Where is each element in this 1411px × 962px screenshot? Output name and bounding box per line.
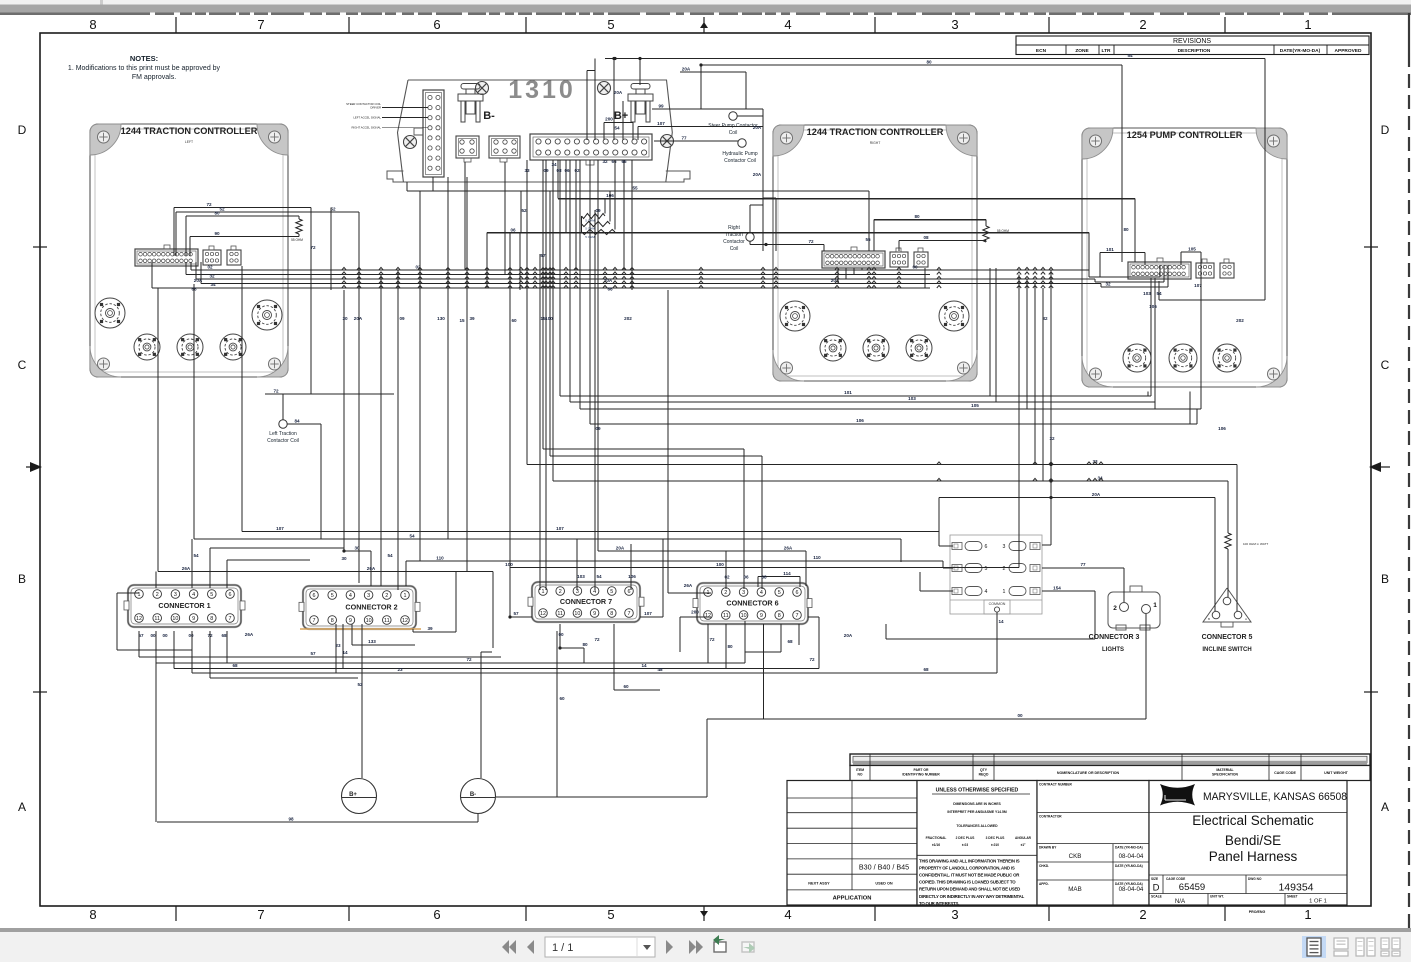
- svg-text:Contactor Coil: Contactor Coil: [724, 158, 756, 164]
- wire 80 top: [699, 60, 1129, 263]
- wire 08 right box: [899, 235, 986, 251]
- svg-text:103: 103: [908, 396, 916, 401]
- svg-text:52: 52: [521, 208, 527, 213]
- svg-text:A: A: [1245, 617, 1247, 621]
- svg-text:NO: NO: [857, 773, 862, 777]
- wire conn1 top drops: [156, 539, 344, 588]
- svg-text:6: 6: [433, 907, 440, 922]
- connector J2 on right controller: [822, 247, 928, 268]
- svg-text:FM approvals.: FM approvals.: [132, 74, 176, 81]
- svg-text:14: 14: [998, 619, 1004, 624]
- wire B+ top: [357, 624, 363, 778]
- svg-text:02: 02: [724, 575, 730, 580]
- svg-text:B: B: [1208, 617, 1210, 621]
- svg-text:60: 60: [559, 696, 565, 701]
- wire panel B+ feed: [638, 57, 641, 85]
- svg-text:80: 80: [1123, 227, 1129, 232]
- svg-text:CHKD.: CHKD.: [1039, 864, 1049, 868]
- wire 105 mid: [580, 160, 1201, 409]
- steer pump contactor coil: [708, 112, 758, 136]
- wire drop i: [464, 162, 466, 270]
- svg-text:107: 107: [276, 526, 284, 531]
- svg-text:5: 5: [778, 590, 781, 596]
- svg-text:±.010: ±.010: [991, 843, 999, 847]
- wire left coil leads: [283, 394, 321, 539]
- svg-text:39: 39: [469, 316, 475, 321]
- wire conn6 left 200: [680, 610, 711, 653]
- 6-pin block A on panel: [456, 136, 479, 162]
- svg-text:80: 80: [926, 60, 932, 65]
- wire 80 left box: [186, 211, 299, 257]
- svg-text:72: 72: [809, 657, 815, 662]
- svg-text:11: 11: [154, 616, 160, 622]
- svg-text:2: 2: [559, 589, 562, 595]
- svg-text:1 / 1: 1 / 1: [552, 942, 573, 954]
- svg-text:DWG NO: DWG NO: [1248, 877, 1262, 881]
- wire 1254 drops: [1143, 278, 1202, 402]
- svg-text:68: 68: [787, 639, 793, 644]
- svg-text:7: 7: [313, 618, 316, 624]
- svg-text:SIZE: SIZE: [1151, 877, 1158, 881]
- svg-text:RIGHT: RIGHT: [870, 141, 881, 145]
- resistor R6 100 OHM (incline): [1225, 533, 1269, 549]
- svg-text:65459: 65459: [1179, 882, 1205, 893]
- svg-text:60: 60: [511, 318, 517, 323]
- svg-text:8: 8: [778, 613, 781, 619]
- power studs pump controller: [1123, 344, 1241, 372]
- wire drop a: [330, 208, 332, 291]
- svg-text:09: 09: [595, 426, 601, 431]
- wire 107 top: [638, 121, 763, 140]
- svg-text:33: 33: [524, 168, 530, 173]
- svg-text:20A: 20A: [354, 316, 363, 321]
- svg-text:±1/16: ±1/16: [932, 843, 940, 847]
- svg-text:B30 / B40 / B45: B30 / B40 / B45: [859, 863, 909, 872]
- svg-text:3: 3: [367, 593, 370, 599]
- wire 105 stub: [1181, 247, 1201, 410]
- svg-text:2 DEC PLUS: 2 DEC PLUS: [956, 836, 975, 840]
- svg-text:68: 68: [923, 667, 929, 672]
- svg-text:54: 54: [409, 534, 415, 539]
- svg-text:200: 200: [605, 117, 613, 122]
- wire line 456: [550, 191, 762, 456]
- wire bus 34: [194, 262, 1101, 287]
- wire drop m: [545, 160, 553, 590]
- svg-text:3: 3: [742, 590, 745, 596]
- wire fuse4 feed: [920, 572, 953, 591]
- wire 23 line: [192, 631, 997, 673]
- svg-text:ECN: ECN: [1036, 48, 1047, 54]
- wire 1254 right drops: [1148, 392, 1190, 425]
- svg-text:57: 57: [310, 651, 316, 656]
- svg-text:08-04-04: 08-04-04: [1119, 886, 1144, 893]
- wire drop f: [432, 177, 434, 191]
- svg-text:08: 08: [556, 168, 562, 173]
- wire conn6 left 26A: [668, 290, 711, 593]
- svg-text:6: 6: [313, 593, 316, 599]
- wire 34: [553, 160, 1228, 597]
- svg-text:5: 5: [607, 17, 614, 32]
- svg-text:55: 55: [632, 186, 638, 191]
- wire drop b: [342, 212, 362, 583]
- svg-text:68: 68: [761, 575, 767, 580]
- svg-text:RETURN UPON DEMAND AND SHALL N: RETURN UPON DEMAND AND SHALL NOT BE USED: [919, 887, 1020, 892]
- wire 57 line: [139, 631, 501, 657]
- svg-text:10: 10: [574, 611, 580, 617]
- svg-text:10: 10: [366, 618, 372, 624]
- svg-text:68: 68: [221, 633, 227, 638]
- svg-text:2: 2: [1139, 17, 1146, 32]
- wire 57 drop: [540, 253, 546, 590]
- svg-text:54: 54: [596, 574, 602, 579]
- svg-text:Coil: Coil: [730, 246, 739, 252]
- svg-text:ANGULAR: ANGULAR: [1015, 836, 1032, 840]
- svg-text:15: 15: [540, 316, 546, 321]
- svg-text:26A: 26A: [784, 546, 793, 551]
- svg-text:UNLESS OTHERWISE SPECIFIED: UNLESS OTHERWISE SPECIFIED: [936, 788, 1019, 794]
- wire 33 right vert: [1050, 409, 1052, 424]
- svg-text:MATERIAL: MATERIAL: [1216, 768, 1233, 772]
- svg-text:SHEET: SHEET: [1287, 895, 1298, 899]
- svg-text:100: 100: [716, 562, 724, 567]
- svg-text:5: 5: [610, 589, 613, 595]
- svg-text:106: 106: [628, 574, 636, 579]
- svg-text:1: 1: [542, 589, 545, 595]
- screws on panel: [404, 82, 674, 149]
- connector 2: [299, 586, 420, 629]
- svg-text:110: 110: [436, 556, 444, 561]
- svg-text:34: 34: [210, 282, 216, 287]
- svg-text:APPD.: APPD.: [1039, 882, 1049, 886]
- wire drop g: [437, 177, 448, 539]
- wire 60 drop: [557, 631, 565, 797]
- svg-text:Coil: Coil: [729, 130, 738, 136]
- svg-text:6: 6: [985, 544, 988, 550]
- svg-text:CONFIDENTIAL. IT MUST NOT BE M: CONFIDENTIAL. IT MUST NOT BE MADE PUBLIC…: [919, 873, 1020, 878]
- svg-text:Hydraulic Pump: Hydraulic Pump: [722, 151, 758, 157]
- svg-text:39: 39: [427, 626, 433, 631]
- svg-text:NOTES:: NOTES:: [130, 54, 158, 63]
- svg-text:4: 4: [760, 590, 763, 596]
- svg-text:B+: B+: [349, 792, 357, 798]
- svg-text:23: 23: [335, 643, 341, 648]
- svg-text:DIRECTLY OR INDIRECTLY IN ANY: DIRECTLY OR INDIRECTLY IN ANY WAY DETRIM…: [919, 894, 1025, 899]
- svg-text:A: A: [1381, 800, 1389, 814]
- svg-text:±.03: ±.03: [962, 843, 968, 847]
- svg-text:66: 66: [607, 287, 613, 292]
- svg-text:7: 7: [257, 17, 264, 32]
- svg-text:10: 10: [172, 616, 178, 622]
- svg-text:3: 3: [1003, 544, 1006, 550]
- wire 55 bus: [407, 182, 871, 251]
- svg-text:Panel Harness: Panel Harness: [1209, 849, 1298, 864]
- svg-text:1254 PUMP CONTROLLER: 1254 PUMP CONTROLLER: [1127, 130, 1243, 140]
- svg-text:5 OHM: 5 OHM: [585, 235, 595, 239]
- svg-text:72: 72: [466, 657, 472, 662]
- svg-text:77: 77: [1080, 562, 1086, 567]
- svg-text:THIS DRAWING AND ALL INFORMATI: THIS DRAWING AND ALL INFORMATION THEREIN…: [919, 859, 1020, 864]
- svg-text:54: 54: [193, 553, 199, 558]
- connector 5 incline switch: [1202, 588, 1253, 653]
- svg-text:00: 00: [912, 265, 918, 270]
- resistor R2 55 OHM (right): [983, 226, 1009, 242]
- svg-text:26A: 26A: [245, 632, 254, 637]
- svg-text:107: 107: [556, 526, 564, 531]
- viewer toolbar: [0, 928, 1411, 962]
- svg-text:08-04-04: 08-04-04: [1119, 853, 1144, 860]
- wire 54 top: [605, 53, 1265, 300]
- wire conn6 top drops: [724, 449, 767, 589]
- wire drop l: [519, 233, 521, 290]
- wire conn7 pin8 drop: [614, 624, 660, 690]
- svg-text:4: 4: [985, 589, 988, 595]
- wire 110b: [407, 556, 530, 562]
- svg-text:9: 9: [349, 618, 352, 624]
- svg-text:80: 80: [582, 642, 588, 647]
- svg-text:CONNECTOR 3: CONNECTOR 3: [1089, 634, 1140, 641]
- svg-text:103: 103: [577, 574, 585, 579]
- highlighted wire under connector 2: [300, 628, 421, 630]
- svg-text:8: 8: [89, 907, 96, 922]
- wire 202 label: [1218, 318, 1244, 431]
- svg-text:30: 30: [342, 316, 348, 321]
- svg-text:54: 54: [1156, 291, 1162, 296]
- svg-text:2: 2: [385, 593, 388, 599]
- svg-text:3: 3: [174, 592, 177, 598]
- svg-text:114: 114: [783, 571, 791, 576]
- wire 20A fuse bottom: [844, 624, 1095, 639]
- svg-text:00: 00: [162, 633, 168, 638]
- svg-text:77: 77: [681, 136, 687, 141]
- svg-text:CONNECTOR 7: CONNECTOR 7: [560, 597, 612, 606]
- wire panel top drops: [587, 57, 633, 140]
- svg-text:100: 100: [545, 316, 553, 321]
- wire 57 conn7 left: [508, 578, 532, 619]
- svg-text:9: 9: [192, 616, 195, 622]
- svg-text:06: 06: [510, 228, 516, 233]
- wire 52 left box: [176, 207, 359, 257]
- svg-text:06: 06: [564, 168, 570, 173]
- wire 26A conn1: [158, 288, 493, 648]
- svg-text:C: C: [1381, 358, 1390, 372]
- svg-text:7: 7: [229, 616, 232, 622]
- wire 54 conn: [193, 284, 901, 562]
- wire 39: [413, 572, 456, 633]
- svg-text:5: 5: [331, 593, 334, 599]
- svg-text:INTERPRET PER ANSI/ASME Y14.5M: INTERPRET PER ANSI/ASME Y14.5M: [947, 810, 1007, 814]
- svg-text:4: 4: [192, 592, 195, 598]
- wire right cluster v: [1019, 270, 1051, 481]
- svg-text:MARYSVILLE, KANSAS 66508: MARYSVILLE, KANSAS 66508: [1203, 791, 1347, 803]
- svg-text:DRIVER: DRIVER: [370, 106, 381, 110]
- wire 33: [527, 160, 1237, 611]
- svg-text:48: 48: [657, 667, 663, 672]
- svg-text:66: 66: [621, 159, 627, 164]
- svg-text:02: 02: [574, 168, 580, 173]
- svg-text:CONNECTOR 6: CONNECTOR 6: [726, 599, 778, 608]
- svg-text:8: 8: [331, 618, 334, 624]
- svg-text:IDENTIFYING NUMBER: IDENTIFYING NUMBER: [902, 773, 940, 777]
- vertical 16-pin connector on panel: [414, 90, 444, 177]
- svg-text:98: 98: [288, 817, 294, 822]
- svg-text:30: 30: [341, 556, 347, 561]
- hydraulic pump contactor coil: [722, 139, 758, 164]
- connector J3 on pump controller: [1128, 258, 1234, 279]
- wire 114 conn6: [758, 571, 800, 587]
- svg-text:9: 9: [760, 613, 763, 619]
- wire 68 line: [174, 617, 819, 672]
- svg-text:6: 6: [796, 590, 799, 596]
- svg-text:DATE(YR-MO-DA): DATE(YR-MO-DA): [1280, 48, 1321, 54]
- power studs right controller: [780, 301, 969, 361]
- svg-text:149354: 149354: [1278, 882, 1313, 894]
- wire bus 32: [196, 262, 1095, 283]
- svg-text:00: 00: [1017, 713, 1023, 718]
- svg-text:8: 8: [610, 611, 613, 617]
- svg-text:32: 32: [602, 159, 608, 164]
- svg-text:32: 32: [209, 274, 215, 279]
- revisions table: [1016, 36, 1369, 55]
- svg-text:DATE (YR-MO-DA): DATE (YR-MO-DA): [1115, 864, 1143, 868]
- wire 98 B+ loop: [156, 631, 478, 822]
- svg-text:26A: 26A: [684, 583, 693, 588]
- svg-text:2: 2: [724, 590, 727, 596]
- title block: [787, 754, 1370, 914]
- svg-text:72: 72: [709, 637, 715, 642]
- svg-text:Left Traction: Left Traction: [269, 431, 297, 437]
- svg-text:B-: B-: [470, 792, 476, 798]
- wire 110: [406, 555, 953, 586]
- svg-text:CONTRACTOR: CONTRACTOR: [1039, 814, 1062, 818]
- svg-text:6: 6: [628, 589, 631, 595]
- wire 20A right conn: [598, 160, 806, 586]
- B- terminal bolt: [458, 84, 495, 123]
- svg-text:15: 15: [459, 318, 465, 323]
- wire drop h: [459, 177, 475, 572]
- svg-text:4: 4: [784, 907, 791, 922]
- svg-text:55: 55: [865, 237, 871, 242]
- svg-text:20A: 20A: [844, 633, 853, 638]
- svg-text:PROPERTY OF LANDOLL CORPORATIO: PROPERTY OF LANDOLL CORPORATION, AND IS: [919, 866, 1015, 871]
- wire 107 conn7 right: [640, 539, 663, 617]
- svg-text:11: 11: [384, 618, 390, 624]
- svg-text:09: 09: [595, 208, 601, 213]
- svg-text:26A: 26A: [182, 566, 191, 571]
- svg-text:8: 8: [89, 17, 96, 32]
- svg-text:1: 1: [1003, 589, 1006, 595]
- svg-text:8: 8: [210, 616, 213, 622]
- svg-text:09: 09: [399, 316, 405, 321]
- svg-text:101: 101: [1106, 247, 1114, 252]
- svg-text:09: 09: [543, 168, 549, 173]
- svg-text:B: B: [1381, 572, 1389, 586]
- svg-text:90: 90: [214, 231, 220, 236]
- wire 72 left box: [174, 202, 394, 394]
- svg-text:ITEM: ITEM: [856, 768, 864, 772]
- svg-text:MAB: MAB: [1068, 886, 1081, 893]
- svg-text:DRAWN BY: DRAWN BY: [1039, 846, 1057, 850]
- wire drop n: [565, 160, 567, 233]
- svg-text:2: 2: [1139, 907, 1146, 922]
- svg-text:2: 2: [1113, 605, 1117, 612]
- svg-text:101: 101: [844, 390, 852, 395]
- svg-text:3: 3: [951, 17, 958, 32]
- wire 106 line: [558, 160, 1135, 262]
- svg-text:LEFT ACCEL SIGNAL: LEFT ACCEL SIGNAL: [353, 116, 381, 120]
- wire drop k: [510, 233, 517, 568]
- svg-text:10: 10: [741, 613, 747, 619]
- svg-text:57: 57: [540, 253, 546, 258]
- notes text: [68, 54, 221, 81]
- svg-text:B-: B-: [483, 110, 495, 122]
- svg-text:DATE (YR-MO-DA): DATE (YR-MO-DA): [1115, 846, 1143, 850]
- svg-text:02: 02: [207, 265, 213, 270]
- wire 00 lights: [707, 614, 1146, 719]
- svg-text:72: 72: [206, 202, 212, 207]
- svg-text:11: 11: [557, 611, 563, 617]
- connector 1: [124, 585, 245, 627]
- wire 100: [505, 409, 1019, 578]
- wire 20A top: [680, 67, 746, 110]
- svg-text:B: B: [18, 572, 26, 586]
- svg-text:12: 12: [136, 616, 142, 622]
- svg-text:D: D: [1381, 123, 1390, 137]
- wire 80 right box: [874, 214, 986, 251]
- svg-text:Right: Right: [728, 225, 740, 231]
- wire 101 stub: [1100, 247, 1145, 277]
- svg-text:20A: 20A: [194, 278, 203, 283]
- svg-text:2: 2: [1003, 566, 1006, 572]
- svg-text:LIGHTS: LIGHTS: [1102, 647, 1124, 653]
- svg-text:N/A: N/A: [1175, 898, 1186, 905]
- svg-text:CONNECTOR 5: CONNECTOR 5: [1202, 634, 1253, 641]
- wire 106 mid: [590, 160, 1197, 424]
- svg-text:26A: 26A: [367, 566, 376, 571]
- svg-text:5: 5: [210, 592, 213, 598]
- svg-text:80: 80: [727, 644, 733, 649]
- svg-text:4: 4: [784, 17, 791, 32]
- wire 1254 left links: [1089, 265, 1168, 287]
- svg-text:USED ON: USED ON: [875, 882, 893, 886]
- svg-text:FRACTIONAL: FRACTIONAL: [926, 836, 947, 840]
- svg-text:5: 5: [985, 566, 988, 572]
- svg-text:C: C: [18, 358, 27, 372]
- wire 99: [652, 104, 763, 110]
- wire B- right: [496, 719, 707, 797]
- connector 7: [528, 582, 644, 622]
- wire conn7 bottom: [558, 624, 600, 663]
- svg-text:100 OHM ¼ WATT: 100 OHM ¼ WATT: [1243, 542, 1268, 546]
- svg-text:06: 06: [743, 575, 749, 580]
- svg-text:00: 00: [558, 632, 564, 637]
- wire 154: [1042, 586, 1095, 640]
- wire 32 label: [1042, 316, 1055, 441]
- svg-text:UNIT WT.: UNIT WT.: [1210, 895, 1224, 899]
- svg-text:3 DEC PLUS: 3 DEC PLUS: [986, 836, 1005, 840]
- svg-text:LEFT: LEFT: [185, 140, 193, 144]
- svg-text:UNIT WEIGHT: UNIT WEIGHT: [1324, 771, 1349, 775]
- connector J1 on left controller: [135, 245, 241, 266]
- fuse block: [950, 535, 1042, 614]
- svg-text:CONTRACT NUMBER: CONTRACT NUMBER: [1039, 783, 1072, 787]
- svg-text:Contactor Coil: Contactor Coil: [267, 438, 299, 444]
- svg-text:32: 32: [1105, 282, 1111, 287]
- wire B- area misc: [481, 652, 492, 778]
- svg-text:APPROVED: APPROVED: [1335, 48, 1362, 54]
- wire junction humps on main bus: [342, 267, 1103, 481]
- svg-text:12: 12: [402, 618, 408, 624]
- svg-text:PRO/ENG: PRO/ENG: [1249, 910, 1266, 914]
